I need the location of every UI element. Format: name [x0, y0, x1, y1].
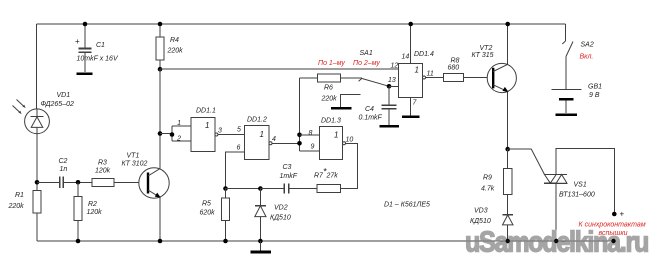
node output minus terminal — [611, 239, 616, 244]
svg-text:1: 1 — [205, 121, 209, 130]
wire SA2 to GB1 — [565, 57, 567, 90]
svg-text:620k: 620k — [200, 210, 216, 217]
wire DD1.4 pin7 — [410, 98, 412, 116]
node VT1 emitter bottom — [158, 239, 163, 244]
node R5 bottom — [223, 239, 228, 244]
node R4 bottom junction — [158, 67, 163, 72]
svg-text:VT1: VT1 — [127, 153, 140, 160]
resistor R8 — [444, 74, 464, 82]
wire DD1.1 tie vertical — [171, 126, 173, 141]
svg-text:D1 – К561ЛЕ5: D1 – К561ЛЕ5 — [384, 202, 430, 209]
resistor R9 — [504, 169, 512, 195]
svg-text:вспышки: вспышки — [599, 230, 628, 237]
node VD3 bottom redraw — [506, 239, 510, 243]
wire left vertical upper — [36, 24, 38, 109]
svg-text:VD2: VD2 — [274, 205, 288, 212]
svg-text:+: + — [75, 37, 80, 46]
resistor R7 — [317, 185, 341, 193]
svg-text:220k: 220k — [167, 48, 184, 55]
logic gate DD1.3 — [320, 127, 343, 160]
wire R3 to VT1 base — [114, 181, 147, 183]
wire triac MT2 — [556, 148, 614, 213]
svg-text:10mkF х 16V: 10mkF х 16V — [77, 56, 119, 63]
svg-text:220k: 220k — [8, 203, 25, 210]
svg-text:11: 11 — [427, 71, 434, 78]
svg-text:VD1: VD1 — [57, 92, 71, 99]
wire VT2 collector up — [507, 24, 509, 64]
svg-text:По 2–му: По 2–му — [353, 60, 380, 67]
wire R2 bottom lead — [77, 221, 79, 242]
svg-text:R6: R6 — [324, 85, 333, 92]
wire bottom rail over watermark — [460, 240, 614, 242]
resistor R3 — [92, 178, 114, 186]
svg-text:SA1: SA1 — [360, 50, 373, 57]
node VD1 bottom junction — [35, 180, 40, 185]
resistor R2 — [74, 197, 82, 221]
wire C4 bottom lead — [388, 109, 390, 125]
svg-text:120k: 120k — [87, 209, 103, 216]
svg-text:1n: 1n — [60, 166, 68, 173]
svg-text:0.1mkF: 0.1mkF — [359, 115, 383, 122]
wire bottom rail — [37, 240, 614, 242]
SA1 contact tick — [359, 78, 362, 81]
wire R6 left lead — [300, 77, 318, 79]
wire R2 top lead — [77, 182, 79, 196]
wire VD2 ground stub — [259, 241, 261, 251]
svg-text:8: 8 — [309, 130, 313, 137]
logic gate DD1.2 — [245, 126, 270, 160]
node R2 bottom — [76, 239, 81, 244]
DD1.1 output bubble — [215, 133, 218, 136]
wire C3 to R7 — [289, 188, 317, 190]
node output plus terminal — [612, 212, 617, 217]
svg-text:1: 1 — [334, 131, 338, 140]
triac VS1 — [544, 174, 567, 176]
capacitor C1 — [79, 48, 92, 50]
svg-text:+: + — [620, 210, 625, 219]
svg-text:120k: 120k — [95, 168, 111, 175]
svg-text:R3: R3 — [98, 160, 107, 167]
wire DD1.1 pin2 stub — [172, 140, 191, 142]
svg-text:4.7k: 4.7k — [481, 186, 495, 193]
svg-text:КД510: КД510 — [270, 215, 291, 222]
transistor VT1 — [139, 168, 169, 198]
SA1 lever — [362, 79, 389, 87]
svg-text:13: 13 — [388, 77, 396, 84]
wire VT2 emitter down — [507, 92, 509, 150]
DD1.3 output bubble — [343, 142, 346, 145]
node pin14 junction — [408, 22, 413, 27]
wire R4 top lead — [159, 24, 161, 37]
svg-text:DD1.1: DD1.1 — [196, 108, 216, 115]
wire C4 top lead — [388, 86, 390, 105]
resistor R5 — [221, 198, 229, 221]
DD1.2 output bubble — [269, 142, 272, 145]
wire R6 branch vertical — [299, 78, 301, 151]
svg-text:10: 10 — [346, 137, 354, 144]
wire pin13 to DD1.4 — [389, 85, 399, 87]
node C2-R2-R3 — [76, 180, 81, 185]
node pin13 junction — [387, 84, 392, 89]
node VT2 collector junction — [505, 22, 510, 27]
node DD1.1 tie junction — [170, 132, 175, 137]
resistor R6 — [318, 74, 341, 82]
svg-text:4: 4 — [272, 136, 276, 143]
wire DD1.2 out — [272, 142, 300, 144]
diode VD3 — [503, 214, 514, 216]
svg-text:КТ 315: КТ 315 — [472, 52, 494, 59]
ground under VD2 — [251, 251, 272, 254]
wire triac gate diagonal — [531, 149, 544, 174]
svg-text:ФД265–02: ФД265–02 — [41, 101, 74, 108]
svg-text:SA2: SA2 — [581, 42, 594, 49]
wire DD1.1 out to DD1.2 pin5 — [218, 134, 245, 136]
wire R8 to VT2 base — [464, 77, 488, 79]
wire rail R5 to VD2 — [226, 188, 261, 190]
svg-text:GB1: GB1 — [588, 84, 602, 91]
diode VD2 — [259, 189, 261, 206]
svg-text:1: 1 — [260, 130, 264, 139]
svg-text:VS1: VS1 — [574, 182, 587, 189]
transistor VT2 — [487, 63, 516, 92]
node VD2 junction — [258, 186, 263, 191]
capacitor C4 — [382, 104, 397, 106]
ground SA1 throw2 — [331, 107, 352, 110]
wire R9 to VD3 — [507, 195, 509, 215]
svg-text:5: 5 — [237, 127, 241, 134]
wire C1 top lead — [84, 24, 86, 48]
wire mid rail to DD1.4 pin12 — [160, 68, 399, 70]
svg-text:Вкл.: Вкл. — [580, 54, 594, 61]
logic gate DD1.4 — [399, 64, 423, 98]
wire VT1 emitter down — [159, 197, 161, 241]
svg-text:C3: C3 — [283, 164, 292, 171]
svg-text:ВТ131–600: ВТ131–600 — [559, 192, 595, 199]
VD1 light arrows — [17, 100, 25, 108]
node VD2 bottom — [258, 239, 263, 244]
photodiode VD1 — [25, 109, 50, 134]
svg-text:По 1–му: По 1–му — [318, 60, 345, 67]
node DD1.2 out junction — [297, 141, 302, 146]
wire left vertical mid — [36, 134, 38, 191]
wire R5 bottom lead — [225, 221, 227, 242]
wire R4 junction down to VT1 collector — [159, 69, 161, 168]
capacitor C2 — [59, 177, 61, 189]
node triac MT1 bottom — [554, 239, 559, 244]
svg-text:2: 2 — [176, 136, 181, 143]
node R5 junction — [223, 186, 228, 191]
svg-text:1: 1 — [415, 66, 419, 75]
svg-text:VT2: VT2 — [480, 45, 493, 52]
node R4 top junction — [158, 22, 163, 27]
resistor R4 — [156, 37, 164, 60]
svg-text:680: 680 — [448, 65, 460, 72]
wire R6 right lead — [341, 77, 363, 79]
wire R4 bottom lead — [159, 60, 161, 69]
wire DD1.4 out to R8 — [426, 77, 444, 79]
wire VT2 emitter to triac gate — [508, 148, 532, 150]
wire R9 top lead — [507, 149, 509, 168]
wire DD1.3 pin8 stub — [300, 134, 320, 136]
svg-text:R4: R4 — [170, 37, 179, 44]
svg-text:C2: C2 — [59, 158, 68, 165]
node pin8 junction — [297, 133, 302, 138]
svg-text:C1: C1 — [96, 42, 105, 49]
svg-text:6: 6 — [237, 145, 241, 152]
svg-text:1mkF: 1mkF — [280, 173, 298, 180]
svg-text:DD1.4: DD1.4 — [414, 51, 434, 58]
svg-text:1: 1 — [177, 120, 181, 127]
svg-text:9: 9 — [311, 144, 315, 151]
node C1 top junction — [83, 22, 88, 27]
SA2 contact tick — [562, 41, 565, 44]
ground under C1 — [77, 72, 93, 75]
svg-text:R5: R5 — [202, 201, 211, 208]
DD1.4 output bubble — [423, 76, 426, 79]
svg-text:КТ 3102: КТ 3102 — [122, 161, 148, 168]
svg-text:3: 3 — [218, 128, 222, 135]
svg-text:DD1.2: DD1.2 — [247, 117, 267, 124]
wire triac MT1 down — [555, 183, 557, 241]
resistor R1 — [33, 191, 41, 214]
svg-text:14: 14 — [402, 54, 410, 61]
node VD3 bottom — [505, 239, 510, 244]
wire rail to SA2 — [565, 24, 567, 41]
svg-text:R1: R1 — [15, 192, 24, 199]
svg-text:R9: R9 — [483, 175, 492, 182]
svg-text:К синхроконтактам: К синхроконтактам — [579, 222, 646, 229]
svg-text:VD3: VD3 — [474, 208, 488, 215]
node triac MT1 bottom redraw — [554, 239, 558, 243]
wire C1 bottom lead — [84, 53, 86, 73]
node DD1.1 input junction — [158, 131, 163, 136]
SA2 lever — [566, 42, 573, 57]
wire R5 top lead — [225, 189, 227, 199]
wire DD1.3 out — [341, 143, 358, 188]
svg-text:C4: C4 — [365, 106, 374, 113]
ground DD1.4 pin7 — [402, 115, 420, 118]
wire SA1 throw2 — [341, 94, 361, 107]
svg-text:DD1.3: DD1.3 — [321, 118, 341, 125]
ground under C4 — [380, 125, 400, 128]
capacitor C3 — [283, 184, 285, 194]
wire left vertical lower — [36, 213, 38, 241]
wire DD1.1 pin1 stub — [172, 125, 191, 127]
wire DD1.4 pin14 — [410, 24, 412, 64]
logic gate DD1.1 — [191, 118, 215, 152]
wire C2 to node — [64, 181, 92, 183]
wire DD1.3 pin9 stub — [300, 150, 320, 152]
svg-text:12: 12 — [391, 63, 399, 70]
svg-text:220k: 220k — [321, 96, 338, 103]
node output minus redraw — [611, 239, 615, 243]
ground under GB1 — [556, 113, 578, 116]
wire DD1.2 pin6 stub — [226, 152, 245, 189]
svg-text:9 В: 9 В — [589, 92, 600, 99]
wire VD2 to C3 — [260, 188, 284, 190]
wire top rail — [37, 23, 566, 25]
wire DD1.1 input tie — [160, 133, 172, 135]
wire junction to C2 — [37, 181, 59, 183]
svg-text:R8: R8 — [451, 58, 460, 65]
svg-text:КД510: КД510 — [470, 218, 491, 225]
battery GB1 — [552, 88, 582, 90]
svg-text:R2: R2 — [88, 201, 97, 208]
node VT2 emitter junction — [505, 147, 510, 152]
